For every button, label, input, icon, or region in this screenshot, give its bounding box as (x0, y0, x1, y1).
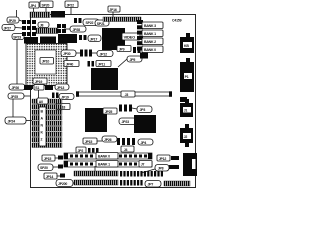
svg-text:JP24: JP24 (8, 119, 16, 123)
wire leader JP16 (112, 12, 114, 17)
label JP9b (117, 46, 131, 52)
wire leader JP22 (70, 8, 72, 15)
wire leader slotA (94, 166, 96, 171)
header comb row1 (120, 171, 163, 177)
wire leader JP26 (25, 86, 28, 88)
label JP24 (left) (5, 117, 26, 124)
wire leader JP29 (19, 20, 23, 22)
label JP16 (top) (108, 6, 120, 12)
label JP30 (61, 50, 76, 57)
chip U2f (black label box) (58, 34, 77, 43)
label JP14 (44, 173, 57, 179)
svg-text:BANK 3: BANK 3 (144, 24, 156, 28)
svg-text:KB: KB (184, 44, 189, 48)
wire leader JP5 (118, 59, 127, 67)
jumper JP40 pins (88, 61, 95, 67)
connector CN3 (180, 103, 193, 117)
label JP18b (56, 104, 70, 110)
board outline (31, 15, 196, 188)
jumper JP9 pins (133, 47, 141, 53)
label BANK 0 (142, 46, 163, 53)
svg-text:JP9: JP9 (119, 47, 125, 51)
label JP15b (83, 138, 97, 144)
jumper block W8 (57, 24, 66, 33)
label JP40 (64, 61, 79, 67)
svg-text:J4: J4 (124, 148, 128, 152)
label J8 (small stadium in cluster) (38, 22, 49, 28)
svg-text:BANK 1: BANK 1 (144, 32, 156, 36)
wire leader JP28b (73, 182, 76, 184)
jumper row W5 (117, 138, 135, 145)
chip U16 (large QFP left) (85, 108, 107, 132)
svg-text:JP22: JP22 (67, 3, 75, 7)
svg-text:JP27: JP27 (4, 26, 12, 30)
label JP8 (stadium) (155, 165, 169, 172)
svg-text:P1: P1 (185, 75, 189, 79)
label JP19 (socket bottom) (33, 78, 47, 84)
label J7 (on simm right) (139, 161, 152, 168)
cache DIP bank rows U7-U15 (32, 99, 62, 148)
jumper JP15c pins (58, 156, 63, 160)
label JP23 (stadium) (119, 118, 136, 125)
label JP25b (on chip corner) (103, 108, 117, 114)
label JP25 (left) (8, 93, 24, 99)
jumper SP20 pins (58, 165, 63, 169)
svg-text:A0: A0 (39, 100, 43, 104)
label JP17 (88, 35, 101, 42)
wire leader margin (12, 99, 14, 117)
SIMM socket BANK0 (horizontal) (64, 153, 152, 159)
svg-text:U30: U30 (52, 13, 58, 17)
jumper row W4 (119, 105, 132, 112)
svg-text:JP3: JP3 (140, 108, 146, 112)
svg-text:J8: J8 (40, 24, 44, 28)
svg-text:SP20: SP20 (40, 166, 48, 170)
label JP10 (inside socket) (40, 58, 54, 65)
svg-text:S1: S1 (35, 86, 39, 90)
label JP5 (stadium) (127, 56, 142, 62)
svg-text:JP19: JP19 (61, 95, 69, 99)
jumper JP2 pins (88, 148, 99, 153)
wire leader SP20 (45, 8, 47, 13)
svg-text:JP4: JP4 (141, 141, 147, 145)
svg-text:SP22: SP22 (86, 21, 94, 25)
jumper pins W6 (74, 18, 82, 23)
video chip U4 (102, 28, 125, 50)
label SP23 (left) (12, 34, 24, 40)
label J3 (121, 91, 135, 97)
svg-text:J7: J7 (141, 163, 145, 167)
label SP22 (stadium) (83, 19, 99, 26)
pin CN2 (186, 58, 190, 62)
jumper JP8 pins (169, 165, 179, 169)
label JP15c (42, 155, 55, 161)
label JP27 (left) (2, 25, 15, 31)
svg-text:JP4: JP4 (30, 4, 36, 8)
label BANK vertical (39, 107, 46, 146)
svg-text:JP26: JP26 (104, 138, 112, 142)
svg-text:JP8: JP8 (158, 167, 164, 171)
svg-text:JP20: JP20 (60, 37, 68, 41)
label JP4b (stadium) (138, 139, 153, 145)
CPU socket U1 (PGA with pin grid) (26, 44, 67, 86)
chip U3 (QFP near socket) (91, 68, 118, 90)
svg-text:JP14: JP14 (46, 175, 54, 179)
svg-text:SP20: SP20 (42, 3, 50, 7)
chip U17 (QFP right) (134, 115, 156, 133)
pin CN3 (185, 99, 189, 103)
svg-text:JP12: JP12 (100, 52, 108, 56)
label OSC (tiny) (34, 85, 44, 91)
jumper JP26 pins (28, 85, 33, 89)
wire leader JP14 (57, 175, 60, 177)
label JP12b (157, 155, 170, 161)
jumper row W3 (below socket) (24, 85, 53, 90)
svg-text:BANK 2: BANK 2 (144, 40, 156, 44)
jumper J6 pins (79, 35, 87, 40)
jumper pins W7 (52, 93, 59, 99)
connector CN5 (printer port) (183, 153, 197, 176)
chip U2e (black label box) (40, 37, 56, 44)
svg-text:JP26: JP26 (12, 86, 20, 90)
svg-text:C4159: C4159 (172, 19, 182, 23)
connector J6 (striped bottom right) (164, 181, 190, 186)
svg-text:BANK 1: BANK 1 (98, 163, 110, 167)
chip U2b (black label box) (51, 11, 65, 18)
wire leader JP15c (55, 157, 58, 159)
label BANK 1 (on simm) (96, 161, 118, 168)
label JP11 (96, 61, 111, 67)
pin CN4a (185, 124, 189, 128)
svg-text:2: 2 (41, 138, 43, 142)
svg-text:JP200: JP200 (58, 182, 67, 186)
pin CN4b (185, 143, 189, 147)
svg-text:SP23: SP23 (13, 35, 21, 39)
ISA slot bar B (74, 180, 118, 185)
svg-text:JP40: JP40 (66, 62, 74, 66)
svg-text:JP19: JP19 (35, 80, 43, 84)
label JP22 (top) (65, 1, 78, 8)
label BANK 0 (on simm) (96, 153, 118, 160)
pin CN1 (186, 33, 190, 37)
label J4 (small) (121, 146, 134, 152)
wire leader JP4 (33, 8, 35, 12)
wire leader JP15b (97, 140, 102, 142)
DIP chip U2 (top striped) (30, 12, 50, 18)
label JP26 (left) (9, 84, 25, 90)
SIMM socket strip S1 (vertical) (137, 20, 143, 51)
label SP20 (top) (40, 1, 53, 8)
label VIDEO (122, 33, 140, 40)
SIMM socket BANK1 (horizontal) (64, 161, 152, 167)
jumper W2 (right mid) (180, 97, 187, 102)
wire leader JP27 (15, 27, 22, 30)
ISA slot bar A (74, 171, 118, 176)
label JP7 (stadium) (145, 181, 161, 188)
wire long leader down left margin (16, 40, 18, 86)
svg-text:U31: U31 (25, 39, 31, 43)
keyboard connector CN1 (180, 37, 194, 53)
svg-text:JP28: JP28 (73, 28, 81, 32)
chip U2d (black label box) (24, 37, 38, 44)
svg-text:JP16: JP16 (109, 8, 117, 12)
DIP chip U5 (top striped) (103, 17, 141, 22)
svg-text:JP25: JP25 (105, 110, 113, 114)
label JP29 (left) (7, 17, 19, 23)
svg-text:JP12: JP12 (159, 157, 167, 161)
svg-text:BANK 0: BANK 0 (144, 48, 156, 52)
chip U6 (small below banks) (140, 53, 148, 59)
label SP20 (hex) (38, 164, 53, 171)
svg-text:SP24: SP24 (41, 39, 49, 43)
svg-text:JP15: JP15 (44, 157, 52, 161)
svg-text:JP15: JP15 (85, 140, 93, 144)
svg-text:JP7: JP7 (148, 183, 154, 187)
label JP13 (55, 84, 69, 90)
label JP3 (stadium) (137, 106, 152, 113)
label JP28 (stadium) (70, 26, 86, 32)
label SP21 (hex) (95, 20, 109, 26)
label JP28b (stadium) (56, 180, 73, 187)
wire leader JP28 (64, 28, 70, 30)
label JP26b (hex) (102, 136, 117, 142)
wire leader W4 (132, 108, 137, 109)
label JP12 (stadium) (97, 51, 113, 57)
svg-text:JP11: JP11 (98, 62, 105, 66)
slot J3 (long horizontal) (76, 91, 172, 97)
svg-text:J3: J3 (125, 93, 129, 97)
svg-text:JP2: JP2 (78, 149, 84, 153)
svg-text:J2: J2 (184, 135, 188, 139)
jumper JP12b pins (171, 156, 179, 160)
jumper JP14 pins (60, 174, 65, 178)
wire leader JP8 to comb (141, 169, 155, 173)
label JP19b (59, 94, 74, 100)
wire leader SP20 (53, 166, 58, 168)
header comb row2 (120, 180, 143, 186)
svg-text:VIDEO: VIDEO (124, 34, 135, 39)
label BANK 2 (142, 38, 163, 45)
svg-text:JP5: JP5 (130, 58, 136, 62)
jumper block cluster W1 (top-left, 3 rows) (22, 20, 36, 36)
svg-text:JP13: JP13 (57, 86, 65, 90)
svg-text:JP17: JP17 (90, 37, 98, 41)
svg-text:JP10: JP10 (42, 60, 50, 64)
wire leader JP30 (76, 52, 80, 54)
label JP2 (small) (76, 147, 86, 153)
svg-text:JP29: JP29 (8, 19, 16, 23)
jumper JP30 pins (80, 50, 92, 57)
wire leader JP12 (92, 52, 97, 54)
wire leader to A0 (38, 90, 40, 98)
connector CN2 (180, 62, 194, 92)
svg-text:JP30: JP30 (63, 52, 71, 56)
wire leader stub above JP29 (16, 10, 18, 17)
label A0 (small above rows) (37, 98, 48, 104)
label BANK 3 (142, 22, 163, 29)
svg-text:J1: J1 (184, 109, 188, 113)
connector CN4 (180, 128, 193, 143)
wire leader JP24 (26, 120, 32, 122)
svg-text:JP25: JP25 (11, 95, 19, 99)
label JP4 (top) (29, 2, 39, 8)
svg-text:BANK 0: BANK 0 (98, 155, 110, 159)
svg-text:SP21: SP21 (97, 22, 105, 26)
svg-text:JP23: JP23 (122, 120, 130, 124)
label BANK 1 (142, 30, 163, 37)
DIP chip U2c (striped above socket) (36, 28, 58, 34)
wire leader JP25 (24, 95, 31, 97)
